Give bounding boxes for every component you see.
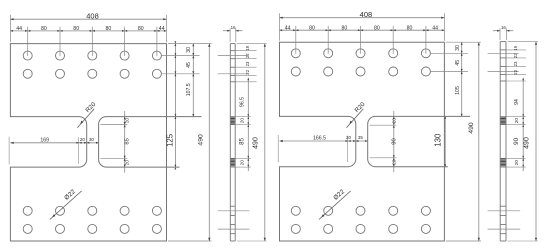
- svg-text:20: 20: [240, 118, 246, 124]
- svg-text:20: 20: [124, 160, 129, 166]
- svg-text:44: 44: [432, 25, 438, 31]
- svg-text:23: 23: [245, 61, 250, 66]
- svg-text:45: 45: [455, 60, 461, 66]
- svg-text:44: 44: [285, 25, 291, 31]
- svg-text:80: 80: [374, 25, 380, 31]
- svg-text:20: 20: [392, 159, 397, 165]
- svg-text:80: 80: [309, 25, 315, 31]
- svg-text:130: 130: [433, 133, 442, 147]
- svg-text:44: 44: [159, 26, 165, 32]
- svg-text:80: 80: [407, 25, 413, 31]
- svg-text:30: 30: [89, 137, 95, 142]
- svg-text:20: 20: [392, 118, 397, 124]
- svg-text:16: 16: [501, 25, 506, 30]
- svg-text:490: 490: [198, 134, 205, 146]
- svg-text:20: 20: [514, 160, 520, 166]
- svg-text:408: 408: [360, 10, 373, 19]
- svg-text:45: 45: [186, 62, 192, 68]
- svg-text:490: 490: [524, 137, 531, 149]
- svg-text:44: 44: [16, 26, 22, 32]
- svg-text:125: 125: [166, 133, 175, 147]
- svg-text:80: 80: [41, 26, 47, 32]
- svg-text:490: 490: [253, 137, 260, 149]
- svg-text:16: 16: [231, 25, 236, 30]
- svg-text:107.5: 107.5: [186, 83, 192, 96]
- svg-text:80: 80: [342, 25, 348, 31]
- svg-text:20: 20: [514, 118, 520, 124]
- svg-text:30: 30: [455, 45, 461, 51]
- svg-text:490: 490: [468, 122, 475, 134]
- svg-text:22: 22: [513, 53, 518, 58]
- svg-text:22: 22: [245, 69, 250, 74]
- svg-text:20: 20: [124, 118, 129, 124]
- svg-text:85: 85: [124, 138, 130, 144]
- svg-text:80: 80: [73, 26, 79, 32]
- svg-text:90: 90: [392, 138, 398, 144]
- svg-text:80: 80: [138, 26, 144, 32]
- svg-text:35: 35: [358, 135, 364, 140]
- svg-text:96.5: 96.5: [240, 97, 246, 107]
- svg-text:169: 169: [40, 137, 49, 143]
- svg-text:80: 80: [106, 26, 112, 32]
- svg-text:19: 19: [513, 45, 518, 50]
- svg-text:85: 85: [239, 137, 246, 144]
- svg-text:105: 105: [455, 86, 461, 95]
- svg-text:166.5: 166.5: [313, 136, 326, 142]
- svg-text:23: 23: [513, 61, 518, 66]
- svg-text:20: 20: [80, 137, 86, 142]
- svg-text:20: 20: [240, 160, 246, 166]
- svg-text:94: 94: [514, 99, 520, 105]
- svg-text:30: 30: [186, 47, 192, 53]
- svg-text:90: 90: [513, 137, 520, 144]
- svg-text:22: 22: [513, 69, 518, 74]
- svg-text:19: 19: [245, 45, 250, 50]
- svg-text:22: 22: [245, 53, 250, 58]
- svg-text:408: 408: [86, 11, 99, 20]
- svg-text:20: 20: [346, 135, 352, 140]
